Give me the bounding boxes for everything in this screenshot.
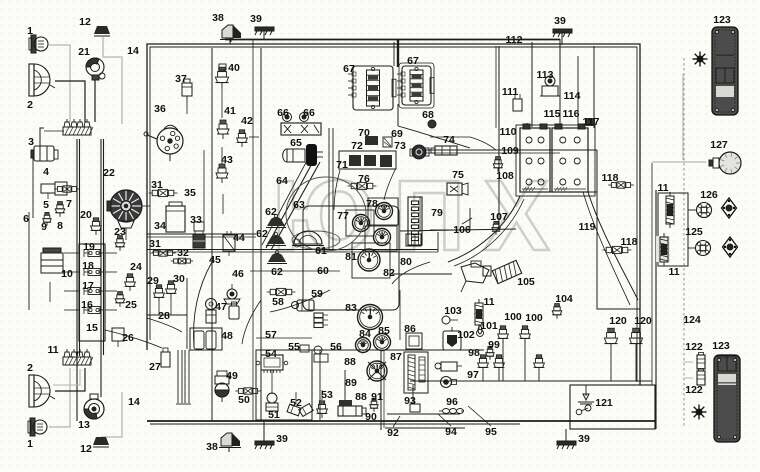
svg-text:25: 25: [125, 299, 137, 311]
svg-text:125: 125: [685, 226, 703, 238]
svg-text:39: 39: [578, 433, 590, 445]
svg-text:7: 7: [66, 198, 72, 210]
svg-text:123: 123: [712, 340, 730, 352]
svg-text:11: 11: [657, 182, 668, 194]
svg-text:66: 66: [303, 107, 315, 119]
svg-text:61: 61: [315, 245, 327, 257]
svg-text:22: 22: [103, 167, 115, 179]
svg-text:12: 12: [79, 16, 91, 28]
svg-text:120: 120: [609, 315, 627, 327]
svg-text:4: 4: [43, 166, 49, 178]
svg-text:119: 119: [579, 221, 596, 233]
svg-text:121: 121: [595, 397, 613, 409]
svg-text:103: 103: [444, 305, 462, 317]
svg-text:123: 123: [713, 14, 731, 26]
svg-text:83: 83: [345, 302, 357, 314]
svg-text:68: 68: [422, 109, 434, 121]
svg-text:88: 88: [344, 356, 356, 368]
svg-text:42: 42: [241, 115, 253, 127]
svg-text:105: 105: [517, 276, 535, 288]
svg-text:76: 76: [358, 173, 370, 185]
svg-text:86: 86: [404, 323, 416, 335]
svg-text:20: 20: [80, 209, 92, 221]
svg-text:29: 29: [147, 275, 159, 287]
svg-text:84: 84: [359, 328, 371, 340]
svg-text:1: 1: [27, 25, 33, 37]
svg-text:126: 126: [700, 189, 718, 201]
svg-text:23: 23: [114, 226, 126, 238]
svg-text:57: 57: [265, 329, 277, 341]
svg-text:31: 31: [151, 179, 163, 191]
svg-text:2: 2: [27, 362, 33, 374]
svg-text:15: 15: [86, 322, 98, 334]
svg-text:13: 13: [78, 419, 90, 431]
svg-text:40: 40: [228, 62, 240, 74]
svg-text:53: 53: [321, 389, 333, 401]
svg-text:32: 32: [177, 247, 189, 259]
svg-text:73: 73: [394, 140, 406, 152]
svg-text:78: 78: [366, 198, 378, 210]
svg-text:11: 11: [47, 344, 58, 356]
svg-text:102: 102: [457, 329, 475, 341]
svg-text:8: 8: [57, 220, 63, 232]
svg-text:120: 120: [634, 315, 652, 327]
svg-text:9: 9: [41, 221, 47, 233]
svg-text:43: 43: [221, 154, 233, 166]
svg-text:110: 110: [500, 126, 517, 138]
svg-text:107: 107: [490, 211, 508, 223]
svg-text:27: 27: [149, 361, 161, 373]
svg-text:92: 92: [387, 427, 399, 439]
svg-text:112: 112: [506, 34, 523, 46]
svg-text:96: 96: [446, 396, 458, 408]
svg-text:100: 100: [525, 312, 543, 324]
svg-text:17: 17: [82, 280, 94, 292]
svg-text:87: 87: [390, 351, 402, 363]
svg-text:62: 62: [256, 228, 268, 240]
svg-text:93: 93: [404, 395, 416, 407]
svg-text:67: 67: [343, 63, 355, 75]
svg-text:109: 109: [501, 145, 519, 157]
svg-text:122: 122: [685, 341, 703, 353]
svg-text:95: 95: [485, 426, 497, 438]
svg-text:64: 64: [276, 175, 288, 187]
svg-text:39: 39: [276, 433, 288, 445]
svg-text:44: 44: [233, 232, 245, 244]
svg-text:114: 114: [564, 90, 581, 102]
svg-text:115: 115: [544, 108, 561, 120]
svg-text:106: 106: [453, 224, 471, 236]
svg-text:94: 94: [445, 426, 457, 438]
svg-text:60: 60: [317, 265, 329, 277]
svg-text:33: 33: [190, 214, 202, 226]
svg-text:99: 99: [488, 339, 500, 351]
svg-text:11: 11: [483, 296, 494, 308]
svg-text:14: 14: [128, 396, 140, 408]
svg-text:16: 16: [81, 299, 93, 311]
svg-text:77: 77: [337, 210, 349, 222]
svg-text:74: 74: [443, 134, 455, 146]
svg-text:2: 2: [27, 99, 33, 111]
svg-text:108: 108: [496, 170, 514, 182]
svg-text:55: 55: [288, 341, 300, 353]
svg-text:49: 49: [226, 370, 238, 382]
svg-text:98: 98: [468, 347, 480, 359]
svg-text:127: 127: [710, 139, 728, 151]
svg-text:37: 37: [175, 73, 187, 85]
svg-text:66: 66: [277, 107, 289, 119]
svg-text:59: 59: [311, 288, 323, 300]
svg-text:118: 118: [621, 236, 638, 248]
svg-text:10: 10: [61, 268, 73, 280]
svg-text:70: 70: [358, 127, 370, 139]
svg-text:81: 81: [345, 251, 357, 263]
svg-text:45: 45: [209, 254, 221, 266]
svg-text:58: 58: [272, 296, 284, 308]
svg-text:26: 26: [122, 332, 134, 344]
svg-text:18: 18: [82, 260, 94, 272]
svg-text:31: 31: [149, 238, 161, 250]
svg-text:54: 54: [265, 348, 277, 360]
svg-text:28: 28: [158, 310, 170, 322]
svg-text:116: 116: [563, 108, 580, 120]
svg-text:71: 71: [336, 159, 348, 171]
svg-text:30: 30: [173, 273, 185, 285]
svg-text:111: 111: [502, 86, 519, 98]
svg-text:79: 79: [431, 207, 443, 219]
svg-text:118: 118: [602, 172, 619, 184]
svg-text:69: 69: [391, 128, 403, 140]
svg-text:124: 124: [683, 314, 701, 326]
svg-text:48: 48: [221, 330, 233, 342]
svg-text:63: 63: [293, 199, 305, 211]
svg-text:24: 24: [130, 261, 142, 273]
svg-text:88: 88: [355, 391, 367, 403]
svg-text:39: 39: [554, 15, 566, 27]
svg-text:82: 82: [383, 267, 395, 279]
svg-text:62: 62: [271, 266, 283, 278]
svg-text:38: 38: [212, 12, 224, 24]
svg-text:39: 39: [250, 13, 262, 25]
svg-text:97: 97: [467, 369, 479, 381]
svg-text:104: 104: [555, 293, 573, 305]
svg-text:3: 3: [28, 136, 34, 148]
svg-text:52: 52: [290, 397, 302, 409]
svg-text:38: 38: [206, 441, 218, 453]
svg-text:75: 75: [452, 169, 464, 181]
svg-text:35: 35: [184, 187, 196, 199]
svg-text:113: 113: [537, 69, 554, 81]
svg-text:51: 51: [268, 409, 280, 421]
svg-text:11: 11: [668, 266, 679, 278]
svg-text:89: 89: [345, 377, 357, 389]
svg-text:47: 47: [215, 301, 227, 313]
svg-text:5: 5: [43, 199, 49, 211]
svg-text:46: 46: [232, 268, 244, 280]
svg-text:62: 62: [265, 206, 277, 218]
svg-text:122: 122: [685, 384, 703, 396]
svg-text:12: 12: [80, 443, 92, 455]
svg-text:56: 56: [330, 341, 342, 353]
svg-text:14: 14: [127, 45, 139, 57]
svg-text:1: 1: [27, 438, 33, 450]
svg-text:36: 36: [154, 103, 166, 115]
svg-text:65: 65: [290, 137, 302, 149]
svg-text:101: 101: [480, 320, 498, 332]
svg-text:91: 91: [371, 391, 383, 403]
svg-text:90: 90: [365, 411, 377, 423]
svg-text:100: 100: [504, 311, 522, 323]
svg-text:21: 21: [78, 46, 90, 58]
svg-text:41: 41: [224, 105, 236, 117]
svg-text:72: 72: [351, 140, 363, 152]
svg-text:34: 34: [154, 220, 166, 232]
svg-text:67: 67: [407, 55, 419, 67]
svg-text:85: 85: [378, 325, 390, 337]
svg-text:80: 80: [400, 256, 412, 268]
svg-text:6: 6: [23, 213, 29, 225]
svg-text:117: 117: [583, 116, 600, 128]
svg-text:19: 19: [83, 241, 95, 253]
svg-text:50: 50: [238, 394, 250, 406]
